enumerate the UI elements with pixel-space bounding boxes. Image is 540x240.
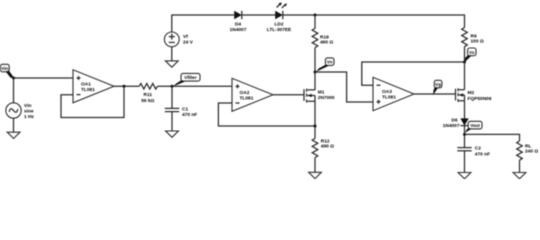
junction node Vn: [314, 71, 317, 74]
svg-text:OA2: OA2: [240, 90, 250, 96]
op-amp OA3 TL081: [373, 77, 414, 110]
node label Vout: [465, 121, 482, 132]
svg-text:M2: M2: [468, 90, 475, 96]
svg-text:sine: sine: [24, 108, 34, 114]
svg-text:Vin: Vin: [1, 66, 8, 71]
svg-text:Vfilter: Vfilter: [184, 75, 197, 80]
ground under Vin source: [7, 132, 20, 138]
transistor M2 FQP50N06: [456, 88, 492, 102]
svg-text:1N4007: 1N4007: [443, 123, 460, 129]
wire OA2 output to M1 gate: [273, 94, 304, 96]
wire M1 drain up to Vn: [314, 72, 316, 90]
wire Vs down to M2 drain: [464, 62, 466, 90]
svg-text:Vout: Vout: [470, 123, 480, 128]
ground under R12: [309, 172, 322, 178]
wire R9 to Vs junction: [464, 47, 466, 62]
svg-text:OA1: OA1: [81, 82, 91, 88]
ground under Vf: [165, 61, 178, 67]
svg-text:470 nF: 470 nF: [182, 112, 197, 118]
ground under RL: [513, 173, 526, 179]
resistor R19 490 Ohm: [312, 28, 333, 47]
node label Vfilter: [173, 73, 200, 86]
wire OA1 output: [114, 85, 139, 87]
wire R19 down to Vn junction: [314, 48, 316, 72]
svg-text:470 nF: 470 nF: [475, 151, 490, 157]
svg-text:C2: C2: [475, 146, 481, 152]
resistor R12 490 Ohm: [312, 138, 334, 157]
wire rail down to R19: [314, 15, 316, 28]
wire C1 to ground: [171, 112, 173, 131]
svg-text:R11: R11: [144, 92, 153, 98]
wire Vfilter down to C1: [171, 86, 173, 108]
wire D6 to Vout junction: [464, 125, 466, 147]
wire LD2 along top rail to R9: [283, 15, 465, 28]
transistor M1 2N7000: [304, 89, 335, 103]
wire top rail from Vf: [172, 15, 234, 32]
resistor RL 240 Ohm: [517, 141, 539, 160]
diode D4 1N4007: [230, 11, 247, 33]
node label Vs: [465, 48, 476, 62]
svg-text:56 kΩ: 56 kΩ: [141, 98, 154, 104]
capacitor C1 470 nF: [165, 106, 197, 118]
svg-text:C1: C1: [182, 106, 188, 112]
wire OA1 feedback loop: [61, 86, 124, 117]
svg-text:OA3: OA3: [382, 89, 392, 95]
svg-text:240 Ω: 240 Ω: [525, 149, 538, 155]
op-amp OA2 TL081: [232, 78, 273, 111]
wire OA3 output to M2 gate: [414, 93, 456, 95]
node label Vn: [316, 58, 334, 72]
junction M1 source feedback: [314, 125, 317, 128]
svg-text:490 Ω: 490 Ω: [321, 143, 334, 149]
junction OA1 output: [123, 85, 126, 88]
wire OA2 feedback to M1 source: [218, 103, 315, 126]
svg-text:100 Ω: 100 Ω: [471, 39, 484, 45]
junction node Vs: [463, 61, 466, 64]
svg-text:D4: D4: [235, 21, 241, 27]
wire M1 source down: [314, 101, 316, 138]
wire Vout junction to RL: [465, 134, 520, 141]
resistor R11 56 kOhm: [139, 84, 157, 104]
wire Vin to OA1 + input: [14, 77, 74, 79]
voltage source Vin sine 1 Hz: [6, 103, 35, 120]
svg-text:M1: M1: [318, 89, 325, 95]
wire RL to ground: [519, 160, 521, 172]
junction node Vfilter: [171, 85, 174, 88]
ground under C1: [166, 131, 179, 137]
voltage source Vf 24 V: [164, 32, 193, 47]
svg-text:TL081: TL081: [240, 96, 254, 102]
svg-text:Vf: Vf: [183, 34, 188, 40]
wire R11 to OA2 + input: [157, 85, 232, 87]
wire junction down to source: [13, 78, 15, 103]
capacitor C2 470 nF: [457, 146, 490, 158]
wire OA3 - input feedback from Vs: [362, 62, 465, 85]
LED LD2 LTL-307EE: [267, 2, 292, 33]
svg-text:FQP50N06: FQP50N06: [468, 96, 492, 102]
svg-text:Vg: Vg: [435, 82, 441, 87]
ground under C2: [458, 173, 471, 179]
svg-text:1 Hz: 1 Hz: [24, 114, 34, 120]
svg-text:Vin: Vin: [24, 103, 31, 109]
svg-text:LD2: LD2: [274, 21, 283, 27]
node label Vg: [433, 80, 442, 95]
svg-text:TL081: TL081: [382, 95, 396, 101]
wire Vf to ground: [171, 47, 173, 61]
svg-text:Vs: Vs: [469, 50, 475, 55]
node label Vin: [0, 64, 13, 78]
wire Vn to OA3 + input: [315, 72, 373, 102]
svg-text:D6: D6: [451, 118, 457, 124]
junction node Vout: [463, 133, 466, 136]
op-amp OA1 TL081: [73, 70, 114, 103]
svg-text:Vn: Vn: [327, 60, 333, 65]
wire D4 to LD2: [242, 14, 276, 16]
svg-text:24 V: 24 V: [183, 40, 194, 46]
svg-text:490 Ω: 490 Ω: [320, 40, 333, 46]
wire R12 to ground: [314, 158, 316, 173]
svg-text:LTL-307EE: LTL-307EE: [267, 27, 292, 33]
svg-text:2N7000: 2N7000: [318, 95, 335, 101]
junction top rail to R19: [314, 14, 317, 17]
wire source to ground: [13, 118, 15, 132]
diode D6 1N4007: [443, 118, 469, 130]
resistor R9 100 Ohm: [462, 28, 484, 47]
wire M2 source down to D6: [464, 101, 466, 119]
svg-text:TL081: TL081: [81, 87, 95, 93]
junction node Vin: [12, 77, 15, 80]
wire C2 to ground: [464, 151, 466, 173]
svg-text:1N4007: 1N4007: [230, 27, 247, 33]
